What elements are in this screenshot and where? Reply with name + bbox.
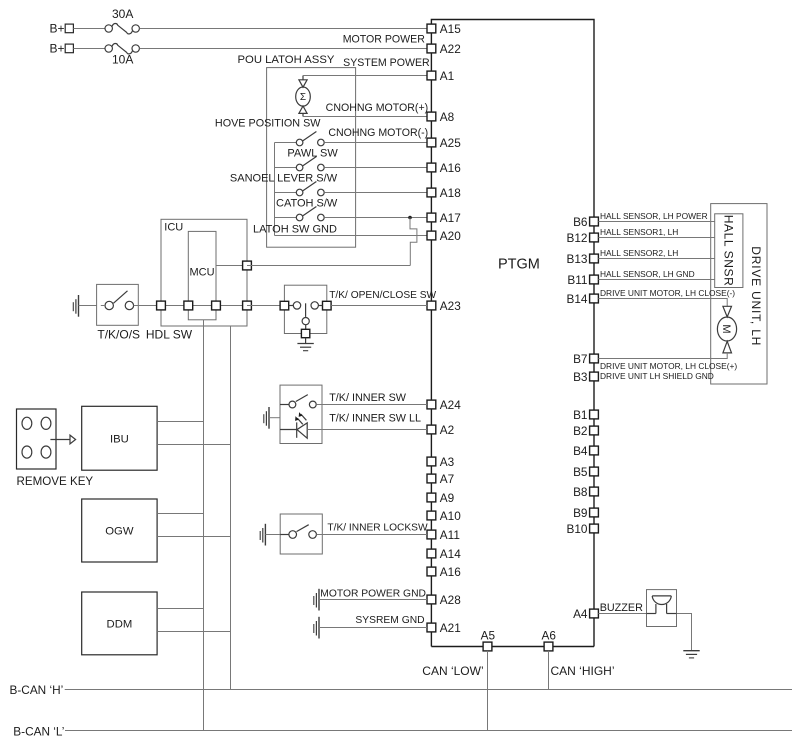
wire HALL SENSOR1, LH [598,237,714,239]
wire common to SANOEL LEVER S/W switch [275,192,297,194]
svg-text:A17: A17 [440,211,461,225]
wire A6 to B-CAN H [548,651,550,690]
svg-text:B+: B+ [50,42,65,56]
PTGM right connector line lower [593,217,595,647]
pin A10 [427,511,436,520]
svg-text:T/K/ INNER LOCKSW: T/K/ INNER LOCKSW [327,523,428,534]
wire MOTOR POWER GND to A28 [319,599,427,601]
wire SYSREM GND to A21 [319,627,427,629]
PTGM connector bottom rail [431,646,594,648]
pin A11 [427,530,436,539]
wire HOVE POSITION SW switch to connector [324,142,427,144]
svg-text:A24: A24 [440,398,461,412]
pin A5 [483,642,492,651]
wire OGW to bus2 [157,536,230,538]
svg-text:A8: A8 [440,110,455,124]
ICU bus line 1 [203,320,205,731]
ICU box [161,219,247,326]
wire T/K INNER SW to A24 [316,404,427,406]
pin A18 [427,188,436,197]
svg-text:B10: B10 [567,522,588,536]
svg-text:Σ: Σ [300,92,306,103]
wire ground to T/K/O/S box [79,305,97,307]
pin T/K OPEN/CLOSE left [280,301,289,310]
svg-text:DRIVE UNIT MOTOR, LH CLOSE(-): DRIVE UNIT MOTOR, LH CLOSE(-) [600,288,735,298]
wire DRIVE UNIT MOTOR LH CLOSE(-) from B14 [598,299,727,307]
ground SYSREM GND [314,617,319,639]
wire T/K/O/S to ICU [138,305,161,307]
svg-text:A4: A4 [573,607,588,621]
pin A8 [427,112,436,121]
pin B4 [590,446,599,455]
ground T/K INNER SW [264,407,269,429]
svg-text:B5: B5 [573,465,588,479]
PTGM left connector line [430,24,432,647]
pin B10 [590,524,599,533]
pin A24 [427,400,436,409]
pin B5 [590,467,599,476]
svg-text:A10: A10 [440,509,461,523]
wire DDM to bus2 [157,631,230,633]
B-CAN H line [65,689,792,691]
svg-text:PTGM: PTGM [498,256,540,272]
LED T/K INNER SW LL [280,412,307,438]
svg-text:A5: A5 [481,629,496,643]
fuse 30A [105,23,139,33]
svg-text:B12: B12 [567,231,588,245]
pin B8 [590,487,599,496]
PTGM connector top rail [431,20,594,218]
svg-text:A23: A23 [440,299,461,313]
wire HALL SENSOR, LH GND [598,279,714,281]
pin A28 [427,595,436,604]
DDM box [82,592,157,655]
pin ICU right edge lower [243,301,252,310]
svg-text:DDM: DDM [107,619,133,631]
svg-text:A7: A7 [440,472,454,486]
svg-text:T/K/ INNER SW LL: T/K/ INNER SW LL [329,413,421,425]
pin ICU right edge upper [243,261,252,270]
ICU bus line 2 [230,326,232,690]
svg-text:B2: B2 [573,424,587,438]
svg-text:T/K/ INNER SW: T/K/ INNER SW [329,392,407,404]
IBU box [82,406,157,470]
buzzer box [647,590,677,627]
svg-text:BUZZER: BUZZER [600,602,643,614]
svg-text:B14: B14 [567,292,588,306]
svg-text:30A: 30A [112,7,133,21]
pin T/K OPEN/CLOSE bottom [301,329,309,337]
T/K/O/S switch contacts [105,291,134,310]
wire ICU to T/K OPEN/CLOSE SW box [247,305,284,307]
svg-text:DRIVE UNIT MOTOR, LH CLOSE(+): DRIVE UNIT MOTOR, LH CLOSE(+) [600,361,737,371]
ground MOTOR POWER GND [314,589,319,611]
svg-text:A15: A15 [440,22,461,36]
pin A1 [427,71,436,80]
wire A4 to buzzer [598,613,646,615]
wire DDM to bus1 [157,608,203,610]
pin MCU left edge [184,301,193,310]
wire IBU to bus2 [157,444,230,446]
pin B13 [590,254,599,263]
wire HALL SENSOR2, LH [598,258,714,260]
wire A5 to B-CAN L [487,651,489,731]
svg-text:B13: B13 [567,252,588,266]
T/K OPEN/CLOSE contacts [289,302,323,330]
svg-text:A20: A20 [440,229,461,243]
svg-text:B11: B11 [567,273,587,287]
svg-text:CNOHNG MOTOR(-): CNOHNG MOTOR(-) [328,127,428,139]
svg-text:A6: A6 [541,629,556,643]
svg-text:MCU: MCU [189,267,214,279]
pin A6 [544,642,553,651]
svg-text:A2: A2 [440,423,454,437]
wire MCU to ICU right edge [216,305,247,307]
svg-text:PAWL SW: PAWL SW [287,148,338,160]
wire LED to A2 [307,429,427,431]
latch cinching motor (sigma) [296,76,311,117]
pin B6 [590,217,599,226]
svg-text:CAN ‘HIGH’: CAN ‘HIGH’ [551,664,615,678]
wire jog A17 junction to ICU wire [410,218,417,266]
pin B1 [590,410,599,419]
HOVE POSITION SW switch [296,132,324,146]
svg-text:OGW: OGW [105,526,134,538]
drive unit motor M [717,306,736,353]
pin B7 [590,354,599,363]
T/K INNER SW contacts [280,395,316,408]
svg-text:10A: 10A [112,53,133,67]
svg-text:A25: A25 [440,136,461,150]
pin A2 [427,425,436,434]
T/K OPEN/CLOSE SW box [284,285,326,333]
wire HALL SENSOR, LH POWER [598,221,714,223]
svg-text:A16: A16 [440,161,461,175]
svg-text:SYSREM GND: SYSREM GND [355,615,424,626]
svg-text:DRIVE UNIT LH SHIELD GND: DRIVE UNIT LH SHIELD GND [600,371,714,381]
svg-text:HDL SW: HDL SW [146,328,193,342]
pin A16 [427,567,436,576]
pin A17 [427,213,436,222]
svg-text:B+: B+ [50,22,65,36]
svg-text:T/K/ OPEN/CLOSE SW: T/K/ OPEN/CLOSE SW [329,290,436,301]
svg-text:B8: B8 [573,485,588,499]
POU LATOH ASSY box [267,68,356,248]
B-CAN L line [65,730,792,732]
svg-text:B4: B4 [573,444,588,458]
svg-text:POU LATOH ASSY: POU LATOH ASSY [238,54,335,66]
svg-text:B7: B7 [573,352,587,366]
T/K INNER SW box [280,385,322,443]
wire buzzer to ground [677,614,692,651]
wire motor to B7 [598,353,727,359]
LOCKSW contacts [280,525,316,539]
wire common to CATOH S/W switch [275,217,297,219]
pin A22 [427,44,436,53]
wire LATOH SW GND to A20 [275,235,428,237]
wire SANOEL LEVER S/W switch to connector [324,192,427,194]
pin B14 [590,294,599,303]
pin A7 [427,474,436,483]
pin B11 [590,275,599,284]
svg-text:ICU: ICU [164,222,183,234]
svg-text:LATOH SW GND: LATOH SW GND [253,224,337,236]
wire A1 system power to motor [303,75,427,77]
pin A25 [427,138,436,147]
svg-text:A16: A16 [440,565,461,579]
svg-text:A11: A11 [440,528,460,542]
pin MCU right edge [212,301,221,310]
wire ICU internal to MCU [161,305,216,307]
wire ICU to latch jog [247,265,410,267]
wire B+ to fuse 30A [73,28,104,30]
pin T/K OPEN/CLOSE right [323,301,332,310]
MCU box [188,231,216,319]
buzzer symbol [647,596,677,614]
svg-text:CAN ‘LOW’: CAN ‘LOW’ [422,664,483,678]
svg-text:A14: A14 [440,547,461,561]
DRIVE UNIT LH box [711,204,767,384]
svg-text:HOVE POSITION SW: HOVE POSITION SW [215,117,321,129]
pin B3 [590,372,599,381]
svg-text:HALL SNSR: HALL SNSR [722,215,736,287]
wire fuse 10A to connector [140,48,427,50]
svg-text:HALL SENSOR2, LH: HALL SENSOR2, LH [600,248,678,258]
svg-text:IBU: IBU [110,433,129,445]
wire B+ to fuse 10A [73,48,104,50]
earth ground buzzer [683,651,699,658]
svg-text:B-CAN ‘H’: B-CAN ‘H’ [10,683,64,697]
pin A21 [427,623,436,632]
junction dot on A17 wire [408,216,412,220]
svg-text:MOTOR POWER GND: MOTOR POWER GND [320,589,426,600]
svg-text:REMOVE KEY: REMOVE KEY [17,475,94,488]
svg-text:B-CAN ‘L’: B-CAN ‘L’ [13,725,64,739]
wire common to PAWL SW switch [275,167,297,169]
pin A3 [427,457,436,466]
pin B2 [590,426,599,435]
pin A9 [427,493,436,502]
svg-text:A18: A18 [440,186,461,200]
svg-text:B1: B1 [573,408,587,422]
pin ICU left edge [157,301,166,310]
pin A20 [427,231,436,240]
REMOVE KEY circles [22,417,32,429]
fuse 10A [105,43,139,53]
svg-text:HALL SENSOR, LH GND: HALL SENSOR, LH GND [600,269,695,279]
wire common to HOVE POSITION SW switch [275,142,297,144]
wire MCU to ICU right edge upper [216,265,247,267]
svg-text:M: M [720,324,732,333]
T/K INNER LOCKSW box [280,514,322,554]
svg-text:A1: A1 [440,69,454,83]
REMOVE KEY box [17,409,57,469]
svg-text:DRIVE UNIT, LH: DRIVE UNIT, LH [749,246,763,346]
svg-text:A28: A28 [440,593,461,607]
svg-text:B3: B3 [573,370,588,384]
wire OGW to bus1 [157,513,203,515]
wire motor to A8 [303,116,427,118]
svg-text:B6: B6 [573,215,588,229]
svg-text:CATOH S/W: CATOH S/W [276,198,338,210]
wire fuse 30A to connector [140,28,427,30]
svg-text:SANOEL LEVER S/W: SANOEL LEVER S/W [230,173,338,185]
pin B12 [590,233,599,242]
HALL SNSR box [715,214,743,288]
wire PAWL SW switch to connector [324,167,427,169]
svg-text:A21: A21 [440,621,461,635]
svg-text:A9: A9 [440,491,454,505]
svg-text:B9: B9 [573,506,587,520]
wire T/K OPEN/CLOSE to A23 [331,305,427,307]
wire ground to T/K INNER box [269,417,280,419]
T/K/O/S switch box [97,284,139,325]
wire ground to LOCKSW box [265,534,280,536]
pin A15 [427,24,436,33]
SANOEL LEVER S/W switch [296,182,324,196]
wire IBU to bus1 [157,421,203,423]
pin A14 [427,549,436,558]
svg-text:CNOHNG MOTOR(+): CNOHNG MOTOR(+) [326,102,429,114]
OGW box [82,499,157,562]
earth ground T/K OPEN/CLOSE [297,344,313,351]
pin A4 [590,609,599,618]
svg-text:HALL SENSOR, LH POWER: HALL SENSOR, LH POWER [600,211,708,221]
CATOH S/W switch [296,207,324,221]
arrow REMOVE KEY to IBU [50,435,75,444]
wire T/K/O/S inside box [101,305,105,307]
svg-text:A22: A22 [440,42,461,56]
svg-text:A3: A3 [440,455,455,469]
svg-text:T/K/O/S: T/K/O/S [97,328,140,342]
pin A23 [427,301,436,310]
pin A16 [427,163,436,172]
svg-text:MOTOR POWER: MOTOR POWER [343,33,426,45]
ground T/K INNER LOCKSW [260,524,265,546]
svg-text:SYSTEM POWER: SYSTEM POWER [343,57,430,69]
svg-text:HALL SENSOR1, LH: HALL SENSOR1, LH [600,227,678,237]
PAWL SW switch [296,157,324,171]
ground T/K/O/S switch [73,295,78,317]
wire LOCKSW to A11 [316,534,427,536]
latch common vertical wire [274,143,276,236]
stem to earth ground [305,338,307,344]
wire CATOH S/W switch to connector [324,217,427,219]
pin B9 [590,508,599,517]
